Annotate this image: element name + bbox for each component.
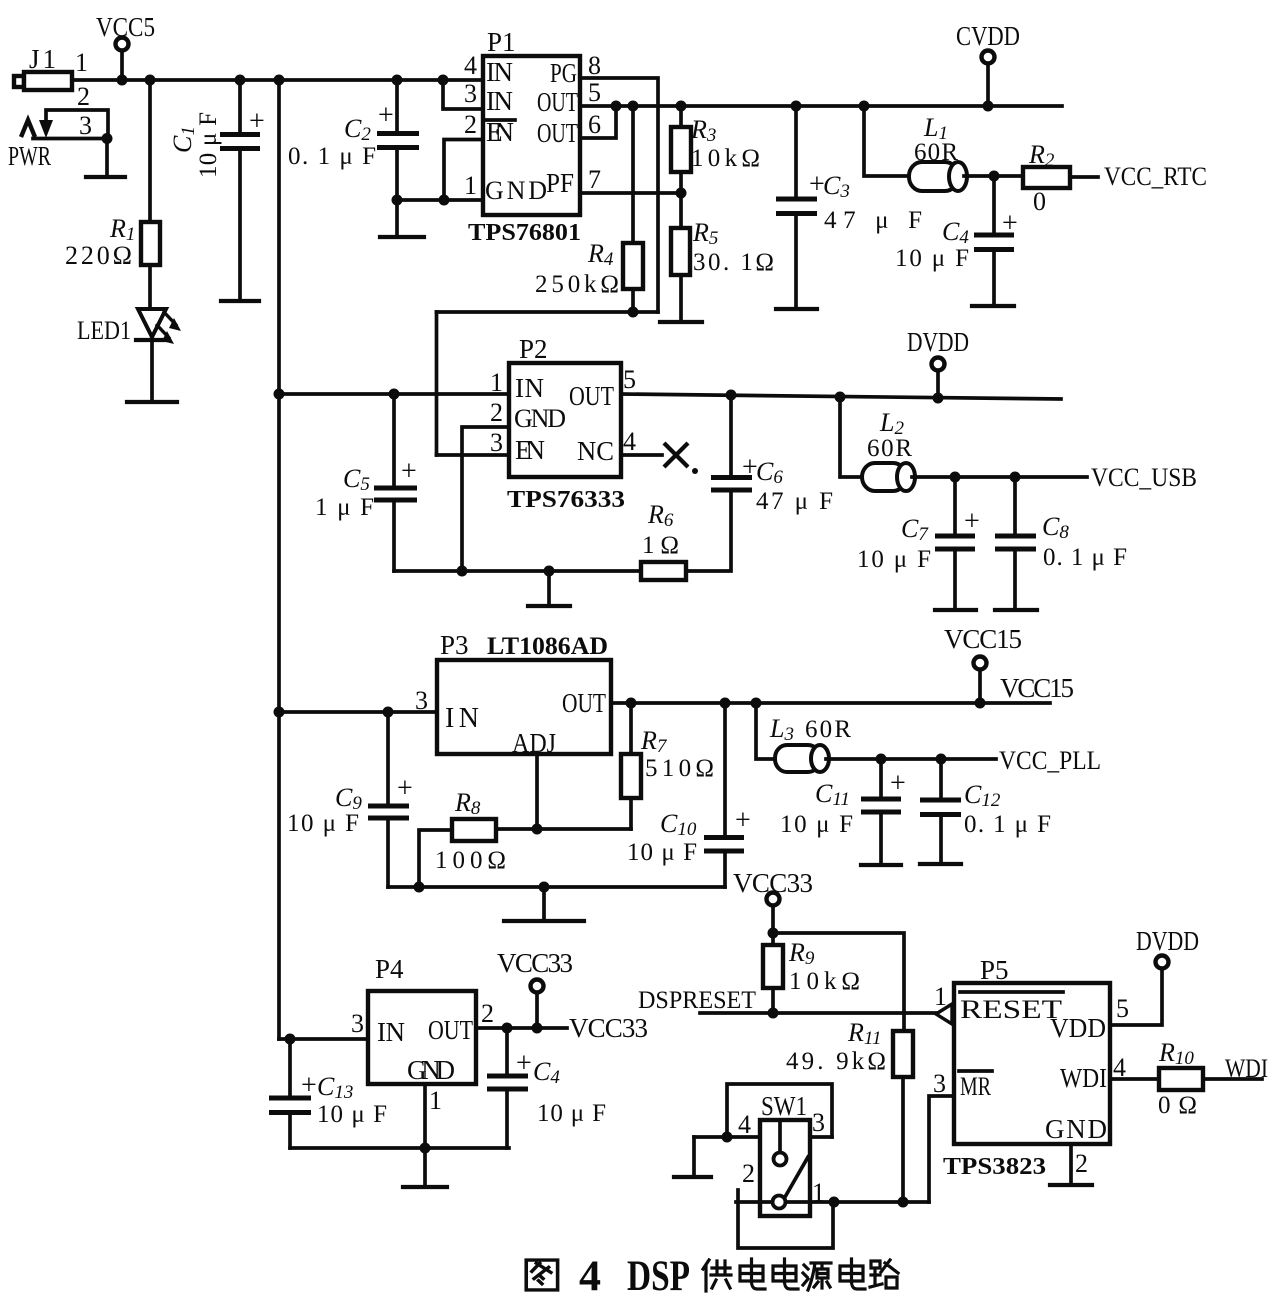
node junction left rail [274, 75, 285, 86]
svg-text:1Ω: 1Ω [642, 532, 679, 559]
svg-text:+: + [516, 1048, 532, 1079]
svg-text:OUT: OUT [562, 688, 606, 718]
svg-text:+: + [735, 805, 751, 836]
wire VDD to DVDD [1110, 969, 1162, 1025]
svg-text:+: + [378, 100, 394, 131]
power terminal VCC33 [497, 948, 573, 1028]
wire pin2 loop [738, 1190, 833, 1248]
svg-text:2: 2 [481, 999, 494, 1028]
svg-text:+: + [964, 506, 980, 537]
svg-text:3: 3 [490, 428, 503, 457]
no-connect X mark [664, 443, 698, 474]
svg-text:1: 1 [75, 48, 88, 77]
svg-text:P4: P4 [375, 954, 404, 984]
svg-text:TPS76333: TPS76333 [507, 487, 625, 513]
svg-text:30. 1Ω: 30. 1Ω [693, 249, 774, 276]
ground bar C8 [995, 608, 1037, 612]
wire pin5 OUT rail [580, 104, 1062, 108]
node junction L3 branch [751, 698, 762, 709]
wire R10 out [1203, 1077, 1262, 1081]
node junction C3 [791, 101, 802, 112]
wire pin4 line [694, 1135, 760, 1139]
node junction pin2 loop [829, 1197, 840, 1208]
node junction C10 [720, 698, 731, 709]
svg-text:3: 3 [464, 79, 477, 108]
resistor R9 [771, 933, 775, 945]
wire to ground [105, 139, 109, 177]
svg-text:10 μ F: 10 μ F [537, 1100, 606, 1127]
wire main VCC5 bus [72, 78, 483, 82]
wire P3 gnd line [388, 885, 725, 889]
node junction gnd stem [544, 566, 555, 577]
svg-text:+: + [890, 768, 906, 799]
ground bar LED [127, 400, 177, 404]
capacitor C2 [288, 80, 419, 236]
svg-text:GND: GND [485, 176, 547, 205]
wire J1 pin2 to switch [46, 110, 108, 139]
switch PWR arrow [39, 120, 53, 138]
resistor R2 [1023, 167, 1070, 188]
node junction R1 branch [145, 75, 156, 86]
resistor R6 [641, 562, 686, 580]
svg-text:3: 3 [812, 1108, 825, 1137]
wire pin6 [580, 106, 616, 138]
wire L1 to R2 [964, 174, 1023, 178]
svg-text:VCC_PLL: VCC_PLL [999, 746, 1101, 775]
ground bar C12 [920, 862, 961, 866]
wire L3 input [756, 703, 775, 759]
node junction pin3 [102, 133, 113, 144]
svg-text:4: 4 [464, 51, 477, 80]
wire pin1 line [736, 1200, 772, 1204]
svg-text:1 μ F: 1 μ F [315, 494, 374, 521]
svg-text:10kΩ: 10kΩ [789, 968, 860, 995]
svg-text:510Ω: 510Ω [645, 755, 714, 782]
wire NC stub [621, 453, 662, 457]
regulator P2 box [509, 363, 621, 477]
node junction R7 [626, 698, 637, 709]
svg-text:4: 4 [738, 1110, 751, 1139]
capacitor C13 [269, 1039, 387, 1148]
svg-text:+: + [249, 106, 265, 137]
node junction DSPRESET [768, 1008, 779, 1019]
svg-text:IN: IN [486, 57, 513, 87]
svg-text:VCC15: VCC15 [1000, 673, 1074, 703]
node junction ADJ [532, 824, 543, 835]
node junction R3 top [676, 101, 687, 112]
regulator P4 box [368, 991, 476, 1084]
svg-text:P2: P2 [519, 334, 548, 364]
svg-text:2: 2 [464, 110, 477, 139]
wire R1 top [148, 80, 152, 222]
svg-text:VCC33: VCC33 [569, 1013, 648, 1043]
ground bar R5 [660, 320, 702, 324]
node junction C2 [392, 75, 403, 86]
capacitor C11 [780, 759, 906, 864]
char yuan [803, 1263, 831, 1290]
wire P3 OUT rail [611, 701, 1050, 705]
char dian [840, 1259, 865, 1289]
svg-text:10 μ F: 10 μ F [857, 546, 931, 573]
svg-text:3: 3 [933, 1069, 946, 1098]
node junction C8 [1010, 472, 1021, 483]
ground bar C7 [935, 608, 976, 612]
wire ADJ line [496, 827, 631, 831]
svg-text:60R: 60R [805, 716, 851, 743]
capacitor C5 [315, 394, 417, 571]
node junction C4b [502, 1023, 513, 1034]
svg-text:VDD: VDD [1050, 1013, 1106, 1043]
wire R1 to LED [148, 265, 152, 309]
wire L2 out [912, 475, 1087, 479]
wire P2 pin2 GND stub [462, 427, 509, 571]
node junction C11 [876, 754, 887, 765]
svg-text:OUT: OUT [537, 118, 578, 148]
node junction C6 top [726, 390, 737, 401]
svg-text:60R: 60R [914, 139, 958, 166]
node junction C2 gnd [392, 195, 403, 206]
svg-text:VCC_RTC: VCC_RTC [1104, 162, 1207, 191]
svg-text:2: 2 [742, 1159, 755, 1188]
wire VCC33 to R11 [773, 933, 904, 1031]
inductor L2 60R [862, 408, 915, 491]
svg-text:7: 7 [588, 165, 601, 194]
wire P1 pin3 [443, 80, 483, 109]
power terminal DVDD P5 [1136, 926, 1199, 969]
svg-text:IN: IN [515, 373, 544, 403]
node junction R4 gnd [628, 307, 639, 318]
ground bar C2 [380, 235, 424, 239]
node junction pin4 gnd [722, 1132, 733, 1143]
svg-text:0Ω: 0Ω [1158, 1092, 1197, 1119]
switch lever [785, 1157, 808, 1197]
capacitor C12 [920, 759, 1051, 863]
wire L1 input [864, 106, 909, 176]
node junction C13 [285, 1034, 296, 1045]
node junction C12 [936, 754, 947, 765]
svg-text:LT1086AD: LT1086AD [487, 633, 608, 660]
ground SW1 [674, 1137, 711, 1177]
ground bar C3 [776, 307, 817, 311]
wire EN loop vertical [435, 312, 439, 455]
svg-text:5: 5 [1116, 994, 1129, 1023]
svg-text:220Ω: 220Ω [65, 241, 132, 270]
svg-text:IN: IN [377, 1017, 405, 1047]
wire P4 gnd line [290, 1146, 509, 1150]
wire L2 input [840, 397, 862, 477]
resistor R10 [1159, 1068, 1203, 1090]
svg-text:+: + [301, 1070, 317, 1101]
switch contact bottom [773, 1196, 786, 1209]
svg-text:NC: NC [577, 436, 614, 466]
svg-text:60R: 60R [867, 435, 912, 462]
node junction VCC5 stem [117, 75, 128, 86]
svg-text:10 μ F: 10 μ F [317, 1101, 387, 1128]
wire P4 OUT [476, 1026, 567, 1030]
power terminal VCC15 [944, 624, 1022, 709]
svg-text:0. 1 μ F: 0. 1 μ F [1043, 544, 1127, 571]
node junction VCC33 stem [532, 1023, 543, 1034]
switch SW1 body [760, 1120, 810, 1216]
wire pin3 line [810, 1135, 832, 1139]
svg-text:P5: P5 [980, 955, 1009, 985]
wire ADJ stub [535, 754, 539, 829]
node junction R4 top [628, 101, 639, 112]
svg-text:4: 4 [579, 1253, 601, 1297]
wire WDI to R10 [1110, 1077, 1159, 1081]
wire P4 pin3 IN [279, 1037, 368, 1041]
wire R2 out [1070, 175, 1098, 179]
node junction PF R3 R5 [676, 188, 687, 199]
svg-text:DVDD: DVDD [907, 327, 969, 357]
ground bar C4 [972, 304, 1014, 308]
wire DSPRESET line [700, 1011, 936, 1015]
svg-text:DVDD: DVDD [1136, 926, 1199, 956]
node junction P4 gnd [420, 1143, 431, 1154]
svg-text:49. 9kΩ: 49. 9kΩ [786, 1048, 886, 1075]
svg-text:10 μ F: 10 μ F [627, 839, 697, 866]
svg-text:100Ω: 100Ω [435, 847, 506, 874]
svg-text:5: 5 [623, 365, 636, 394]
svg-text:DSPRESET: DSPRESET [638, 987, 756, 1014]
svg-text:+: + [401, 456, 417, 487]
svg-text:OUT: OUT [428, 1015, 473, 1045]
capacitor C6 [711, 395, 833, 515]
power terminal VCC33 P5 [733, 868, 813, 939]
node junction L2 branch [835, 392, 846, 403]
svg-text:6: 6 [588, 110, 601, 139]
svg-text:+: + [397, 773, 413, 804]
connector J1 [14, 44, 92, 140]
node junction C1 [235, 75, 246, 86]
switch SW1 outer frame [727, 1084, 832, 1137]
wire gnd link line [437, 310, 659, 314]
switch contact top [778, 1120, 782, 1152]
svg-text:47 μ F: 47 μ F [756, 488, 833, 515]
node junction C4 [989, 171, 1000, 182]
node junction C7 [950, 472, 961, 483]
ground P3 [504, 887, 584, 921]
svg-text:1: 1 [934, 982, 947, 1011]
wire P2 gnd line [394, 569, 641, 573]
svg-text:PG: PG [550, 58, 577, 88]
node junction P1 pin3 loop [438, 75, 449, 86]
svg-text:J1: J1 [29, 44, 56, 74]
svg-text:PWR: PWR [8, 141, 51, 171]
node junction EN gnd [457, 566, 468, 577]
svg-text:10 μ F: 10 μ F [195, 112, 222, 178]
wire MR stub [929, 1096, 954, 1202]
caption figure 4 DSP power supply circuit [526, 1253, 898, 1297]
svg-text:VCC15: VCC15 [944, 624, 1022, 654]
svg-text:IN: IN [445, 703, 479, 734]
svg-text:2: 2 [490, 398, 503, 427]
svg-text:10kΩ: 10kΩ [691, 145, 760, 172]
svg-text:ADJ: ADJ [512, 728, 556, 758]
wire P3 pin3 IN [279, 710, 437, 714]
resistor R5 [679, 193, 683, 228]
svg-text:MR: MR [960, 1072, 991, 1101]
capacitor C9 [287, 712, 413, 887]
svg-text:WDI: WDI [1060, 1063, 1107, 1093]
ground bar C11 [861, 863, 901, 867]
wire left rail vertical [277, 80, 281, 1039]
node junction R8 gnd [414, 882, 425, 893]
svg-text:3: 3 [415, 686, 428, 715]
wire R4 top [631, 106, 635, 243]
capacitor C8 [995, 477, 1127, 609]
capacitor C4 [895, 176, 1018, 305]
svg-text:2: 2 [77, 82, 90, 111]
switch PWR caret [21, 120, 35, 137]
capacitor C10 [627, 703, 751, 887]
svg-text:IN: IN [486, 86, 513, 116]
svg-text:OUT: OUT [537, 87, 578, 117]
wire pin7 PF [580, 191, 681, 195]
resistor R7 [629, 703, 633, 754]
char dian [740, 1259, 765, 1289]
svg-text:SW1: SW1 [761, 1091, 807, 1121]
svg-text:3: 3 [79, 111, 92, 140]
svg-text:0: 0 [1033, 187, 1046, 216]
ground P4 [403, 1148, 447, 1187]
node junction gnd stem P3 [539, 882, 550, 893]
svg-text:0. 1 μ F: 0. 1 μ F [288, 143, 376, 170]
wire LED to ground [150, 340, 154, 401]
char tu [526, 1260, 557, 1290]
wire P2 pin3 EN [437, 453, 510, 457]
inductor L1 60R [909, 113, 967, 191]
node junction rail P2 [274, 389, 285, 400]
inductor L3 60R [769, 714, 851, 772]
svg-text:3: 3 [351, 1009, 364, 1038]
supervisor U P5 box [954, 983, 1110, 1144]
ground P5 [1050, 1144, 1092, 1185]
svg-text:10 μ F: 10 μ F [895, 245, 969, 272]
svg-text:CVDD: CVDD [956, 21, 1020, 51]
wire P2 OUT rail [621, 394, 1061, 399]
capacitor C3 [776, 106, 922, 308]
char gong [703, 1260, 731, 1291]
svg-text:P3: P3 [440, 630, 469, 660]
svg-text:RESET: RESET [960, 995, 1062, 1024]
char dian [773, 1259, 798, 1289]
power terminal VCC5 [96, 12, 155, 80]
wire R8 left [419, 830, 452, 887]
power terminal CVDD [956, 21, 1020, 112]
wire P4 pin1 GND stub [423, 1084, 427, 1148]
svg-text:TPS3823: TPS3823 [943, 1154, 1046, 1180]
svg-text:EN: EN [515, 435, 545, 465]
power terminal DVDD [907, 327, 969, 404]
node junction pin6 [611, 101, 622, 112]
svg-text:LED1: LED1 [77, 316, 131, 345]
wire pin8 PG [580, 78, 658, 312]
svg-text:GND: GND [1045, 1114, 1107, 1144]
resistor R1 [141, 222, 160, 265]
wire P2 pin1 IN [279, 392, 509, 396]
svg-text:GND: GND [407, 1055, 455, 1085]
svg-text:PF: PF [546, 168, 574, 198]
ground bar J1 [86, 175, 125, 179]
svg-text:10 μ F: 10 μ F [780, 811, 853, 838]
wire L3 out [826, 757, 996, 761]
svg-text:0. 1 μ F: 0. 1 μ F [964, 811, 1051, 838]
resistor R4 [623, 243, 643, 289]
resistor R3 [679, 106, 683, 127]
node junction EN gnd [439, 195, 450, 206]
ground P2 [528, 571, 570, 606]
svg-text:1: 1 [490, 368, 503, 397]
svg-text:10 μ F: 10 μ F [287, 810, 359, 837]
resistor R11 [893, 1031, 913, 1077]
svg-text:2: 2 [1075, 1149, 1088, 1178]
node junction R11 bottom [898, 1197, 909, 1208]
svg-text:VCC_USB: VCC_USB [1091, 463, 1197, 492]
wire J1 pin3 [33, 137, 108, 141]
wire R6 to C6 [686, 490, 731, 571]
svg-text:1: 1 [429, 1086, 442, 1115]
node junction C9 [383, 707, 394, 718]
node junction C5 [389, 389, 400, 400]
svg-text:P1: P1 [487, 27, 516, 57]
wire P1 gnd line [397, 198, 483, 202]
svg-text:+: + [1002, 208, 1018, 239]
wire P1 pin2 EN loop [444, 140, 483, 201]
svg-text:TPS76801: TPS76801 [468, 220, 581, 246]
node junction rail P3 [274, 707, 285, 718]
capacitor C7 [857, 477, 980, 609]
op-amp U1 regulator P1 box [483, 56, 580, 215]
resistor R8 [452, 819, 496, 841]
svg-text:4: 4 [623, 427, 636, 456]
svg-text:VCC33: VCC33 [497, 948, 573, 978]
svg-text:DSP: DSP [627, 1253, 690, 1297]
svg-text:5: 5 [588, 78, 601, 107]
capacitor C4 output [487, 1028, 606, 1148]
svg-text:1: 1 [464, 171, 477, 200]
svg-text:GND: GND [514, 404, 566, 433]
LED LED1 [77, 309, 181, 345]
svg-text:8: 8 [588, 51, 601, 80]
node junction L1 branch [859, 101, 870, 112]
char lu [870, 1260, 898, 1288]
svg-text:WDI: WDI [1225, 1054, 1268, 1083]
svg-text:OUT: OUT [569, 381, 614, 411]
wire R4 bottom [631, 289, 635, 312]
input triangle RESET [936, 1004, 952, 1024]
capacitor C1 [168, 80, 265, 301]
regulator P3 box [437, 660, 611, 754]
